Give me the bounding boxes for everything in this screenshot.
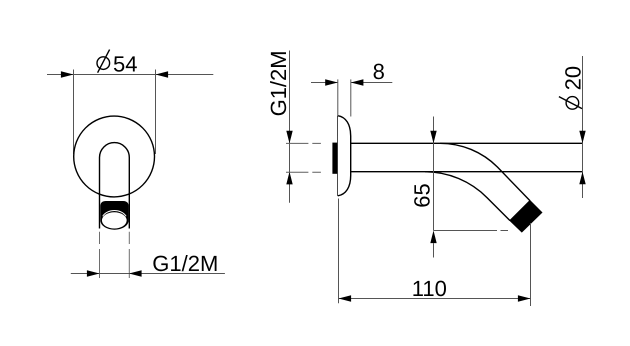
extension line left of D54 xyxy=(73,70,75,155)
dimension line 65 vertical xyxy=(433,117,435,231)
threaded end ring xyxy=(100,201,128,230)
extension line 110 right xyxy=(530,223,532,306)
dimension line D54 xyxy=(47,74,213,76)
pipe top line with extension to D20 xyxy=(351,142,583,144)
label G1/2M rotated xyxy=(266,50,291,116)
pipe threaded tip xyxy=(510,201,542,232)
arrow right of G1/2M xyxy=(129,270,142,276)
dimension line 8 right segment xyxy=(351,82,393,84)
dashed thread line top xyxy=(286,142,321,144)
extension line 110 left xyxy=(338,199,340,304)
extension dashed line left of G1/2M xyxy=(99,232,101,278)
arrow left of D54 xyxy=(61,71,74,77)
diameter symbol of D20 xyxy=(559,97,582,110)
arrow up G1/2M xyxy=(286,172,292,185)
svg-text:20: 20 xyxy=(561,66,586,90)
svg-text:G1/2M: G1/2M xyxy=(266,50,291,116)
svg-text:8: 8 xyxy=(373,59,385,84)
dashed thread line bottom xyxy=(286,171,321,173)
svg-text:65: 65 xyxy=(409,183,434,207)
diameter symbol of D54 label xyxy=(97,50,110,73)
dimension line G1/2M xyxy=(71,273,225,275)
pipe wall right xyxy=(128,158,130,229)
horizontal line at tip level xyxy=(434,230,498,232)
flange dome profile xyxy=(338,116,351,196)
arrow up 65 xyxy=(430,231,436,244)
arrow up D20 xyxy=(579,172,585,185)
pipe bottom line with extension to D20 xyxy=(351,171,583,173)
extension dashed line right of G1/2M xyxy=(128,232,130,278)
arrow down G1/2M xyxy=(286,131,292,144)
wall flange circle xyxy=(74,116,155,197)
dimension line 110 xyxy=(339,298,531,300)
svg-text:110: 110 xyxy=(412,276,447,301)
arrow left of G1/2M xyxy=(87,270,100,276)
pipe top bend xyxy=(440,143,530,200)
label 65 rotated xyxy=(409,183,434,207)
dimension line 8 left segment xyxy=(311,82,338,84)
label D20 rotated xyxy=(559,66,586,109)
arrow left of 110 xyxy=(339,295,352,301)
arrow right of 110 xyxy=(518,295,531,301)
arrow left of 8 xyxy=(325,79,338,85)
flange left edge xyxy=(337,116,339,196)
pipe wall left xyxy=(99,158,101,229)
arrow right of D54 xyxy=(156,71,169,77)
svg-text:54: 54 xyxy=(113,52,137,77)
extension line right of D54 xyxy=(155,70,157,155)
dashes to tip xyxy=(501,230,509,232)
thread highlight arc xyxy=(103,210,126,216)
tail below arrow 65 xyxy=(433,243,435,257)
extension line 8 left xyxy=(337,79,339,116)
threaded end opening xyxy=(102,212,127,228)
arrow down D20 xyxy=(579,131,585,144)
arrow right of 8 xyxy=(351,79,364,85)
pipe bottom bend xyxy=(425,172,510,221)
dimension line D20 vertical xyxy=(582,56,584,198)
dimension line G1/2M vertical xyxy=(289,51,291,203)
extension line 8 right xyxy=(350,79,352,116)
thread stub black bar xyxy=(332,143,337,174)
arrow down 65 xyxy=(430,131,436,144)
svg-text:G1/2M: G1/2M xyxy=(152,251,218,276)
pipe cap arc xyxy=(100,143,130,158)
